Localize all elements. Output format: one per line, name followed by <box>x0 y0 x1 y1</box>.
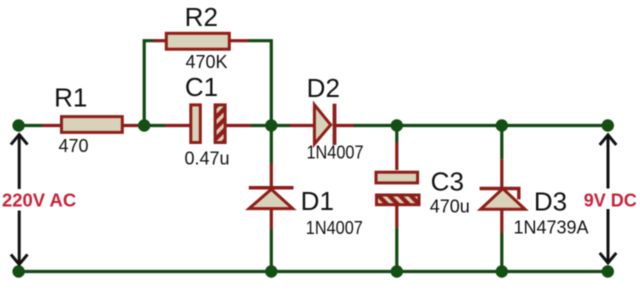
svg-text:470: 470 <box>58 136 88 156</box>
svg-text:C1: C1 <box>185 72 218 102</box>
svg-text:R2: R2 <box>185 2 218 32</box>
svg-text:R1: R1 <box>54 83 87 113</box>
svg-text:0.47u: 0.47u <box>184 148 229 168</box>
svg-text:470K: 470K <box>185 52 227 72</box>
svg-text:9V DC: 9V DC <box>584 190 637 210</box>
svg-text:D1: D1 <box>301 186 334 216</box>
svg-text:220V AC: 220V AC <box>2 190 76 210</box>
svg-text:1N4739A: 1N4739A <box>513 218 588 238</box>
svg-text:D3: D3 <box>534 186 567 216</box>
svg-text:D2: D2 <box>307 73 340 103</box>
svg-text:1N4007: 1N4007 <box>307 143 364 163</box>
svg-text:470u: 470u <box>430 197 470 217</box>
svg-text:1N4007: 1N4007 <box>306 218 363 238</box>
svg-text:C3: C3 <box>431 166 464 196</box>
